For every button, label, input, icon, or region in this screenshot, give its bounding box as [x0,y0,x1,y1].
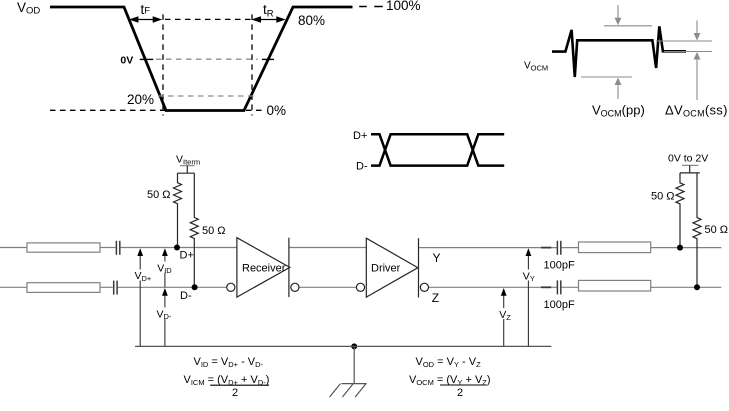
svg-text:100%: 100% [386,0,421,13]
svg-text:100pF: 100pF [544,260,575,272]
svg-text:D-: D- [356,161,368,173]
svg-text:100pF: 100pF [544,299,575,311]
svg-text:VOD: VOD [17,0,40,17]
svg-text:D+: D+ [180,250,194,262]
svg-text:VID = VD+ - VD-: VID = VD+ - VD- [194,356,264,369]
svg-text:2: 2 [232,387,238,399]
svg-text:tF: tF [141,2,151,17]
svg-text:20%: 20% [127,92,154,107]
svg-text:tR: tR [263,2,274,19]
svg-text:2: 2 [457,387,463,399]
svg-text:50 Ω: 50 Ω [651,191,675,203]
svg-text:VIterm: VIterm [176,154,200,167]
svg-text:Driver: Driver [371,263,401,275]
svg-text:VOCM: VOCM [524,61,548,73]
svg-text:50 Ω: 50 Ω [202,225,226,237]
svg-text:D-: D- [180,290,192,302]
svg-text:50 Ω: 50 Ω [705,224,729,236]
svg-text:VOCM(pp): VOCM(pp) [592,103,645,119]
svg-text:Y: Y [433,251,441,265]
svg-text:0V: 0V [120,55,133,67]
svg-text:80%: 80% [298,13,325,28]
svg-text:ΔVOCM(ss): ΔVOCM(ss) [665,103,728,119]
svg-text:0V to 2V: 0V to 2V [668,153,708,165]
svg-text:D+: D+ [353,130,367,142]
svg-text:Z: Z [432,291,439,305]
svg-text:Receiver: Receiver [242,263,286,275]
svg-text:VOD = VY - VZ: VOD = VY - VZ [416,356,482,369]
svg-text:50 Ω: 50 Ω [147,189,171,201]
svg-text:0%: 0% [267,103,287,118]
